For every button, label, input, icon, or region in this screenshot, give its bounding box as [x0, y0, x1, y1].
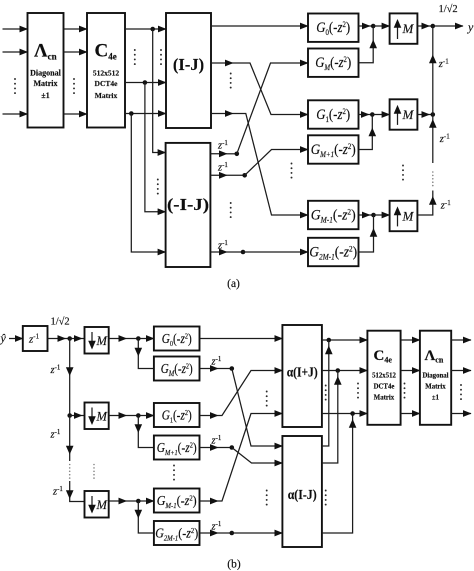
filter G2M-1(-z^2) (a) — [308, 238, 359, 266]
wire branch down into GM — [135, 339, 154, 369]
wire G0 out arrow — [359, 25, 371, 27]
filter GM(-z^2) (a) — [308, 49, 359, 77]
block alpha(I+J) — [282, 325, 322, 427]
node input splitter row2 — [67, 413, 72, 418]
filter G1(-z^2) (b) — [154, 403, 200, 427]
wire branch out2 down into (-I-J) — [145, 83, 166, 212]
wire delay out arrow — [48, 338, 66, 340]
ellipsis C4e outputs left — [134, 49, 136, 65]
wire C4e to Lcn row2 (b) — [401, 370, 420, 372]
wire downsampler2 out arrow — [109, 415, 127, 417]
ellipsis after alpha(I+J) — [325, 385, 327, 401]
svg-text:G1(-z2): G1(-z2) — [316, 107, 350, 124]
wire output row2 (b) — [451, 370, 471, 372]
wire Lcn to C4e row1 — [64, 28, 88, 30]
wire (-I-J) out1 arrow — [210, 153, 227, 155]
svg-text:y: y — [467, 20, 474, 34]
wire output row1 (b) — [451, 339, 471, 341]
label z-1 input chain middle — [50, 428, 61, 441]
wire downsampler3 out arrow — [109, 500, 127, 502]
svg-text:z-1: z-1 — [440, 199, 451, 212]
svg-text:z-1: z-1 — [439, 132, 450, 145]
svg-text:(I-J): (I-J) — [173, 55, 204, 74]
svg-text:Matrix: Matrix — [34, 79, 58, 88]
wire adder row3 into upsampler — [374, 214, 390, 216]
filter GM+1(-z^2) (a) — [308, 135, 359, 163]
node GM delayed — [218, 366, 234, 371]
wire alpha(I-J) out1 riser — [322, 340, 333, 446]
svg-text:M: M — [402, 208, 415, 223]
block (I-J) butterfly (a) — [166, 13, 211, 128]
wire G2M-1 to alpha(I-J) in3 — [232, 532, 283, 534]
filter GM-1(-z^2) (b) — [154, 489, 200, 513]
node G2M-1 delayed — [218, 531, 234, 536]
wire G1 out arrow — [359, 114, 370, 116]
wire downsampler1 out arrow — [109, 338, 127, 340]
svg-text:z-1: z-1 — [438, 57, 449, 70]
label input yhat — [0, 331, 7, 345]
svg-text:z-1: z-1 — [52, 485, 63, 498]
wire alpha(I+J) out1 to C4e — [322, 339, 368, 341]
wire G1 out arrow — [200, 415, 219, 417]
svg-text:z-1: z-1 — [50, 428, 61, 441]
svg-text:(a): (a) — [227, 278, 240, 290]
node splitter G0/GM — [127, 336, 141, 341]
label z-1 on GM out — [211, 355, 222, 368]
ellipsis before G column (b) — [173, 465, 175, 481]
node (-I-J) out1 — [227, 152, 239, 157]
node adder row1 — [370, 24, 376, 29]
wire C4e to Lcn row3 (b) — [401, 413, 420, 415]
wire GM up into adder row1 — [359, 26, 378, 63]
svg-text:M: M — [402, 21, 415, 36]
node input splitter row1 — [66, 336, 72, 341]
svg-text:512x512: 512x512 — [93, 69, 120, 78]
filter G0(-z^2) (a) — [308, 14, 359, 42]
filter G2M-1(-z^2) (b) — [154, 521, 200, 545]
wire upsampler3 bend up — [418, 191, 433, 216]
label z-1 delay on (-I-J) out3 — [217, 239, 228, 252]
wire Lcn to C4e row2 — [64, 51, 88, 53]
node (-I-J) out3 — [227, 250, 245, 255]
node sum row2 (b) — [336, 368, 341, 373]
wire G2M-1 up into adder row3 — [359, 215, 378, 252]
svg-text:1/√2: 1/√2 — [439, 3, 458, 15]
svg-text:(-I-J): (-I-J) — [167, 195, 209, 214]
ellipsis after alpha(I-J) — [325, 490, 327, 506]
wire branch down into GM+1 — [135, 416, 154, 448]
svg-text:z-1: z-1 — [211, 434, 222, 447]
label output y — [467, 20, 474, 34]
node adder row2 — [369, 112, 375, 117]
wire alpha(I+J) out2 to C4e — [322, 370, 368, 372]
wire branch out3 down into (-I-J) — [131, 114, 165, 253]
wire G1 cross up to alpha(I+J) in2 — [218, 371, 282, 416]
wire C4e out1 to (I-J) — [125, 28, 166, 30]
wire input chain into downsampler3 — [66, 481, 85, 502]
wire into GM-1 — [138, 500, 154, 502]
wire GM cross down to alpha(I-J) in1 — [232, 369, 283, 447]
label z-1 chain bottom — [440, 199, 451, 212]
wire GM-1 cross up to alpha(I+J) in3 — [218, 414, 282, 502]
wire C4e out2 to (I-J) — [125, 82, 166, 84]
wire GM-1 out arrow — [200, 500, 219, 502]
svg-text:Matrix: Matrix — [95, 91, 118, 100]
block C4e DCT matrix (a) — [87, 13, 125, 128]
wire GM+1 up into adder row2 — [359, 115, 377, 150]
svg-text:M: M — [402, 107, 415, 122]
wire delay chain below row2 — [429, 115, 437, 164]
svg-text:G0(-z2): G0(-z2) — [316, 20, 350, 37]
wire (I-J) out1 to G0 — [211, 25, 308, 27]
node junction out1 — [150, 27, 155, 32]
svg-text:±1: ±1 — [41, 91, 49, 100]
ellipsis before alpha(I+J) — [266, 391, 268, 407]
wire (-I-J) out2 arrow — [210, 174, 227, 176]
node splitter G1/GM+1 — [127, 413, 141, 418]
ellipsis before C4e (b) — [357, 383, 359, 399]
label z-1 chain top — [438, 57, 449, 70]
downsampler M row3 — [85, 491, 109, 518]
downsampler M row2 — [85, 403, 109, 430]
svg-text:z-1: z-1 — [211, 355, 222, 368]
wire GM out arrow — [200, 368, 219, 370]
svg-text:z-1: z-1 — [50, 363, 61, 376]
svg-text:M: M — [96, 498, 108, 512]
ellipsis downsampler column — [93, 464, 95, 479]
wire alpha(I+J) out3 to C4e — [322, 413, 368, 415]
wire adder row2 into upsampler — [372, 114, 389, 116]
node output sum row1 — [430, 24, 436, 29]
wire (I-J) out2 arrow — [211, 62, 233, 64]
ellipsis before alpha(I-J) — [266, 490, 268, 506]
node output sum row2 — [430, 112, 436, 117]
node sum row3 (b) — [350, 411, 355, 416]
block Lcn diagonal matrix (b) — [420, 331, 451, 425]
node splitter GM-1/G2M-1 — [127, 499, 141, 504]
wire (-I-J) out2 cross up to GM+1 — [245, 150, 308, 176]
svg-text:M: M — [96, 334, 108, 348]
ellipsis between C4e and Lcn (b) — [404, 383, 406, 399]
svg-text:Matrix: Matrix — [425, 384, 446, 391]
wire into G1 — [138, 415, 154, 417]
label z-1 chain middle — [439, 132, 450, 145]
wire C4e to Lcn row1 (b) — [401, 339, 420, 341]
upsampler M row2 — [390, 99, 418, 129]
downsampler M row1 — [85, 327, 109, 354]
ellipsis before G column — [291, 163, 293, 179]
node junction out3 — [129, 111, 134, 116]
label z-1 input chain top — [50, 363, 61, 376]
svg-text:1/√2: 1/√2 — [51, 316, 70, 328]
caption (b) — [227, 559, 241, 571]
ellipsis (-I-J) outputs — [230, 202, 232, 218]
svg-text:z-1: z-1 — [211, 520, 222, 533]
wire input chain row1-row2 — [66, 339, 74, 416]
ellipsis delay chain — [432, 171, 434, 186]
svg-text:G0(-z2): G0(-z2) — [162, 331, 192, 348]
svg-text:M: M — [96, 410, 108, 424]
svg-text:Diagonal: Diagonal — [30, 69, 61, 78]
svg-text:z-1: z-1 — [217, 239, 228, 252]
ellipsis left of (-I-J) — [157, 179, 159, 195]
block (-I-J) butterfly (a) — [166, 143, 211, 267]
node junction out2 — [143, 80, 148, 85]
wire input x0(n) into Lcn — [3, 28, 28, 30]
block alpha(I-J) — [282, 436, 322, 547]
wire G0 to alpha(I+J) — [200, 338, 283, 340]
wire alpha(I-J) out2 riser — [322, 371, 342, 464]
wire (-I-J) out1 cross up to GM — [237, 63, 308, 154]
wire into downsampler2 — [70, 415, 85, 417]
svg-text:(b): (b) — [227, 559, 241, 571]
svg-text:z-1: z-1 — [217, 161, 228, 174]
wire (-I-J) out3 to G2M-1 — [243, 251, 308, 253]
ellipsis (I-J) outputs — [230, 73, 232, 89]
filter GM+1(-z^2) (b) — [154, 436, 200, 460]
wire (I-J) out2 cross down to G1 — [233, 63, 308, 115]
wire input chain below row2 — [66, 416, 74, 462]
filter GM(-z^2) (b) — [154, 357, 200, 381]
svg-text:α(I+J): α(I+J) — [287, 365, 318, 380]
label gain 1/sqrt2 (a) — [439, 3, 458, 15]
wire (I-J) out3 cross down to GM-1 — [233, 114, 308, 216]
wire branch down into G2M-1 — [135, 501, 154, 533]
upsampler M row3 — [390, 201, 418, 231]
svg-text:G1(-z2): G1(-z2) — [162, 407, 192, 424]
wire GM+1 cross down to alpha(I-J) in2 — [232, 448, 283, 464]
label z-1 on GM+1 out — [211, 434, 222, 447]
wire upsampler1 to output node — [417, 25, 429, 27]
svg-text:α(I-J): α(I-J) — [288, 487, 317, 502]
ellipsis outputs (b) — [460, 384, 462, 400]
wire GM+1 out arrow — [200, 447, 219, 449]
svg-text:z-1: z-1 — [217, 139, 228, 152]
svg-text:ŷ: ŷ — [0, 331, 7, 345]
filter G1(-z^2) (a) — [308, 100, 359, 128]
wire C4e out3 to (I-J) — [125, 113, 166, 115]
wire delay chain row2-row1 — [429, 26, 437, 115]
svg-text:Matrix: Matrix — [374, 395, 395, 402]
node (-I-J) out2 — [227, 173, 247, 178]
wire GM-1 out arrow — [359, 214, 371, 216]
label z-1 input chain bottom — [52, 485, 63, 498]
node sum row1 (b) — [327, 338, 332, 343]
svg-text:DCT4e: DCT4e — [374, 384, 395, 391]
wire input into delay — [9, 338, 23, 340]
node adder row3 — [370, 213, 376, 218]
wire Lcn to C4e row3 — [64, 113, 88, 115]
wire (I-J) out3 arrow — [211, 113, 233, 115]
caption (a) — [227, 278, 240, 290]
wire alpha(I-J) out3 riser — [322, 414, 357, 534]
ellipsis between Lcn and C4e — [73, 78, 75, 94]
node GM+1 delayed — [218, 445, 234, 450]
wire adder row1 into upsampler — [373, 25, 389, 27]
svg-text:Diagonal: Diagonal — [422, 373, 448, 380]
upsampler M row1 — [390, 13, 418, 43]
filter G0(-z^2) (b) — [154, 327, 200, 351]
svg-text:512x512: 512x512 — [372, 373, 396, 380]
wire branch out1 down into (-I-J) — [153, 29, 166, 153]
wire G2M-1 out arrow — [200, 532, 218, 534]
label z-1 delay on (-I-J) out2 — [217, 161, 228, 174]
filter GM-1(-z^2) (a) — [308, 201, 359, 229]
wire (-I-J) out3 arrow — [210, 251, 227, 253]
delay z-1 block (b) — [23, 326, 48, 351]
block Lcn diagonal matrix (a) — [28, 13, 64, 128]
wire upsampler2 to output node — [417, 114, 429, 116]
ellipsis C4e outputs right — [160, 49, 162, 65]
wire into G0 — [138, 338, 154, 340]
ellipsis input chain — [69, 464, 71, 479]
label gain 1/sqrt2 (b) — [51, 316, 70, 328]
arrow delay chain above row3 — [429, 196, 437, 205]
wire output row3 (b) — [451, 413, 471, 415]
svg-text:±1: ±1 — [432, 395, 440, 402]
ellipsis upsampler column — [402, 165, 404, 181]
block C4e DCT matrix (b) — [367, 331, 400, 425]
wire input xN(n) into Lcn — [3, 113, 28, 115]
svg-text:DCT4e: DCT4e — [95, 79, 119, 88]
label z-1 delay on (-I-J) out1 — [217, 139, 228, 152]
wire output y(n) — [433, 25, 463, 27]
wire into downsampler1 — [70, 338, 85, 340]
ellipsis input column — [14, 78, 16, 94]
wire input x1(n) into Lcn — [3, 51, 28, 53]
label z-1 on G2M-1 out — [211, 520, 222, 533]
